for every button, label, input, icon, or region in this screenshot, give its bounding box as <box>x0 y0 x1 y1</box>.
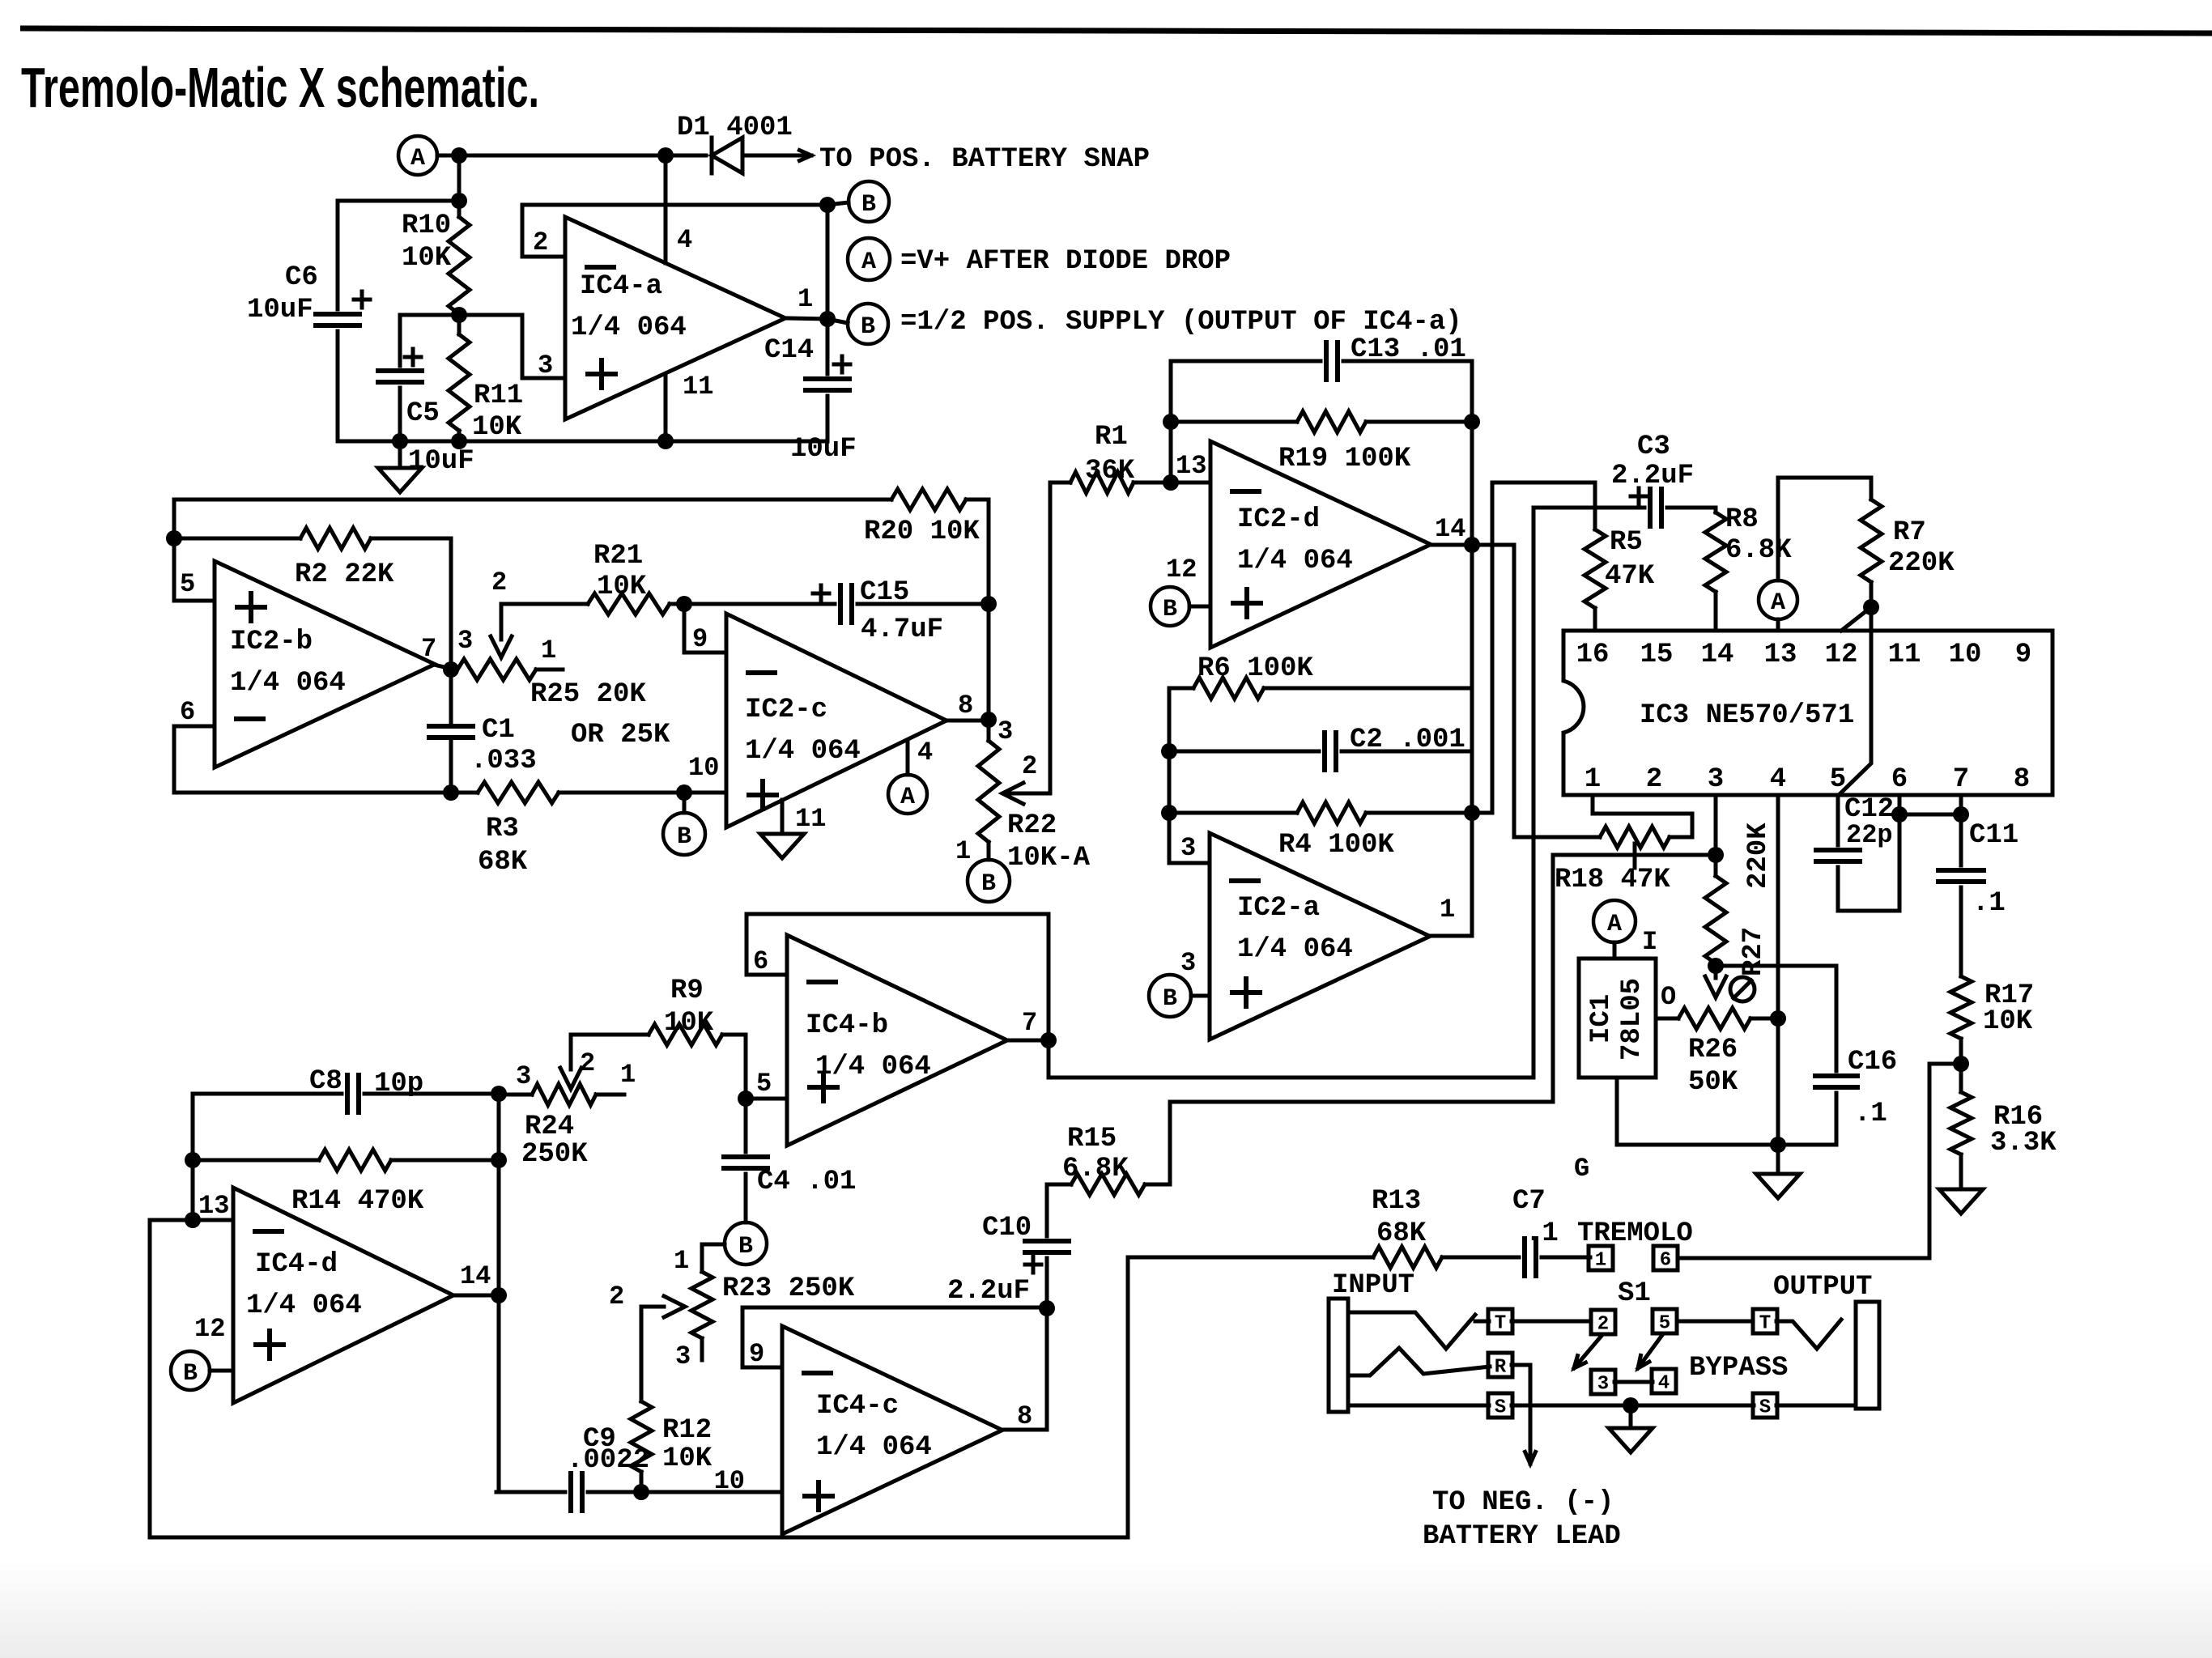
svg-text:10K: 10K <box>597 572 647 602</box>
svg-text:2.2uF: 2.2uF <box>1611 461 1694 491</box>
junction pin13 node <box>1163 474 1179 491</box>
wire C9 right rail <box>588 1490 782 1494</box>
wire C8 loop <box>193 1094 342 1157</box>
svg-text:1/4 064: 1/4 064 <box>571 312 687 343</box>
resistor R18 <box>1600 827 1670 848</box>
op-amp IC2-a <box>1210 833 1430 1039</box>
wire R15 to C10 <box>1045 1184 1049 1236</box>
svg-text:1: 1 <box>1595 1250 1606 1272</box>
svg-text:220K: 220K <box>1888 548 1955 579</box>
svg-text:OR 25K: OR 25K <box>571 720 670 750</box>
svg-text:4: 4 <box>677 225 692 255</box>
wire diagonal to pin12 <box>1841 607 1871 631</box>
node B (C4) <box>725 1222 767 1265</box>
svg-text:T: T <box>1759 1313 1771 1335</box>
wire C14 top <box>826 319 830 374</box>
ground stem IC1 <box>1776 1145 1780 1174</box>
plus sign C5 <box>405 349 421 365</box>
wire R23 wiper <box>641 1307 664 1401</box>
wire riser output to top <box>826 205 830 319</box>
svg-text:10p: 10p <box>374 1069 423 1099</box>
junction pin13 IC4-d <box>185 1212 201 1228</box>
input jack ring contact <box>1348 1348 1490 1375</box>
resistor R10 <box>449 217 470 314</box>
svg-text:C1: C1 <box>482 715 515 746</box>
node B (IC2-d pin12) <box>1151 587 1189 626</box>
capacitor C13 <box>1326 342 1338 380</box>
capacitor C6 <box>316 314 359 325</box>
svg-text:=1/2 POS. SUPPLY (OUTPUT OF IC: =1/2 POS. SUPPLY (OUTPUT OF IC4-a) <box>900 307 1462 338</box>
junction rail/C5 <box>392 433 408 449</box>
wire to pin13 IC4-d <box>191 1160 195 1220</box>
wire R25 wiper <box>500 604 504 640</box>
svg-text:1/4 064: 1/4 064 <box>745 736 861 767</box>
svg-text:IC1: IC1 <box>1586 994 1617 1044</box>
node B (R22 bottom) <box>968 860 1010 902</box>
junction R12/rail <box>633 1484 649 1500</box>
resistor R21 <box>588 593 670 614</box>
svg-text:250K: 250K <box>521 1139 588 1170</box>
svg-text:R12: R12 <box>662 1415 712 1446</box>
svg-text:10: 10 <box>714 1466 745 1496</box>
wire C15 right <box>857 602 989 606</box>
junction R14 right <box>491 1152 507 1168</box>
resistor R7 <box>1861 500 1882 582</box>
wire feedback top <box>522 205 827 257</box>
wire pin3 stub IC2-a <box>1169 861 1210 865</box>
svg-text:7: 7 <box>1953 764 1969 795</box>
svg-text:R23 250K: R23 250K <box>722 1273 855 1304</box>
junction R7/pin12/pin5 <box>1863 599 1879 615</box>
junction R4 right <box>1464 805 1480 821</box>
op-amp IC2-c <box>726 614 946 827</box>
wire IC4-c feedback <box>742 1307 1047 1367</box>
svg-text:3: 3 <box>1708 764 1724 795</box>
wiper stem R27 <box>1714 966 1718 978</box>
junction diode/pin4 <box>657 147 674 164</box>
svg-text:R25 20K: R25 20K <box>530 679 646 710</box>
wire sleeve to output jack <box>1776 1404 1856 1408</box>
svg-text:A: A <box>1607 911 1622 938</box>
wire R22 bottom lead <box>987 842 991 860</box>
wire R14 left lead <box>193 1158 319 1163</box>
svg-text:14: 14 <box>1701 640 1734 670</box>
svg-text:A: A <box>1771 589 1785 617</box>
junction C8/R24 <box>491 1086 507 1102</box>
junction R27 bottom <box>1708 958 1724 974</box>
svg-text:R4 100K: R4 100K <box>1278 830 1394 861</box>
wire C3 right <box>1667 508 1716 512</box>
svg-text:R10: R10 <box>402 210 451 241</box>
wiper arrow R23 <box>664 1296 685 1317</box>
node B (half supply) <box>849 181 889 222</box>
svg-text:C8: C8 <box>309 1066 342 1097</box>
resistor R13 <box>1373 1247 1442 1268</box>
svg-text:C15: C15 <box>860 577 909 608</box>
wire IC2-b output <box>434 665 451 669</box>
wire B node stub <box>827 202 849 205</box>
svg-text:B: B <box>861 313 875 341</box>
wire R23 bottom lead <box>700 1338 704 1360</box>
op-amp IC4-d <box>233 1188 453 1403</box>
svg-text:O: O <box>1661 982 1676 1012</box>
junction R19 left <box>1163 414 1179 430</box>
svg-text:1: 1 <box>674 1246 689 1276</box>
IC IC1 78L05 body <box>1579 959 1656 1078</box>
svg-text:47K: 47K <box>1605 561 1655 592</box>
svg-text:3: 3 <box>516 1061 531 1091</box>
wire T to 2 <box>1512 1320 1591 1324</box>
capacitor C4 <box>724 1157 768 1168</box>
svg-text:Tremolo-Matic X schematic.: Tremolo-Matic X schematic. <box>21 56 539 119</box>
svg-text:12: 12 <box>1166 555 1197 585</box>
symbol wiper dest R27 <box>1730 977 1755 1001</box>
svg-text:9: 9 <box>749 1339 764 1369</box>
wire IC4-d output <box>453 1294 499 1298</box>
wiper arrow R25 <box>491 636 512 657</box>
svg-text:6: 6 <box>1891 764 1908 795</box>
svg-text:1: 1 <box>541 636 556 665</box>
wire R6 left vertical <box>1168 688 1172 863</box>
junction gnd node <box>1770 1137 1786 1153</box>
svg-text:B: B <box>738 1233 753 1261</box>
wire pin5 stub <box>174 599 215 603</box>
svg-text:S: S <box>1759 1397 1771 1419</box>
capacitor C2 <box>1325 733 1336 770</box>
leader line R18 <box>1633 844 1637 868</box>
junction R4 left <box>1161 805 1177 821</box>
terminal T (output jack) <box>1753 1309 1777 1335</box>
svg-text:IC4-c: IC4-c <box>816 1391 899 1422</box>
junction A/R10 <box>451 147 467 164</box>
svg-text:1: 1 <box>1585 764 1601 795</box>
svg-text:2: 2 <box>533 227 548 257</box>
svg-text:R3: R3 <box>486 814 519 844</box>
wire output to B <box>827 319 848 323</box>
svg-text:2: 2 <box>1646 764 1662 795</box>
svg-text:6: 6 <box>753 946 768 976</box>
svg-text:1/4 064: 1/4 064 <box>1237 934 1353 965</box>
svg-text:14: 14 <box>1435 514 1465 544</box>
op-amp IC2-d <box>1210 441 1431 648</box>
svg-text:4: 4 <box>1770 764 1786 795</box>
junction pin3/wire <box>1708 847 1724 863</box>
resistor R5 <box>1585 529 1606 608</box>
wire C12 bottom route <box>1838 795 1899 911</box>
wire R17 bottom <box>1959 1039 1963 1092</box>
wire C6 bottom <box>336 331 340 441</box>
svg-text:50K: 50K <box>1688 1067 1738 1098</box>
svg-text:10K: 10K <box>662 1443 713 1474</box>
wire R21 right lead <box>670 602 684 606</box>
svg-text:A: A <box>900 784 915 811</box>
wiper arrow R22 <box>1002 783 1023 804</box>
node B (IC4-d pin12) <box>171 1351 210 1390</box>
svg-text:OUTPUT: OUTPUT <box>1773 1272 1872 1303</box>
wire R6 right lead <box>1264 687 1472 691</box>
resistor R9 <box>649 1024 722 1045</box>
wire R24 left lead <box>499 1093 532 1097</box>
wire R20 down to pin8 <box>987 604 991 720</box>
wire R9 right lead <box>722 1035 746 1095</box>
wire bottom loop <box>174 791 478 795</box>
svg-text:2: 2 <box>1597 1314 1609 1336</box>
svg-text:9: 9 <box>2015 640 2031 670</box>
svg-text:14: 14 <box>460 1261 491 1291</box>
wire R17R16 junction to pot <box>1678 1064 1961 1258</box>
wire IC2-c output <box>946 719 989 723</box>
terminal 2 (S1) <box>1591 1310 1615 1336</box>
wire R6 leads <box>1169 687 1193 691</box>
svg-text:D1 4001: D1 4001 <box>677 113 793 143</box>
switch arm S1 a <box>1574 1336 1602 1368</box>
terminal 6 (TREMOLO pot) <box>1653 1246 1678 1272</box>
svg-text:.0022: .0022 <box>567 1445 649 1476</box>
wire A to pin13 <box>1776 619 1780 631</box>
wire pin13 stub <box>1171 481 1210 485</box>
wire pin13 riser <box>1171 361 1321 483</box>
wire pin6 stub IC4-b <box>747 973 787 977</box>
arrow to neg battery <box>1525 1417 1536 1464</box>
svg-text:R24: R24 <box>525 1112 574 1142</box>
svg-text:6.8K: 6.8K <box>1725 535 1792 566</box>
node A (IC1 input) <box>1593 900 1636 942</box>
svg-text:10K: 10K <box>402 243 452 274</box>
wire x1818 vertical <box>1470 422 1474 936</box>
wire pin11 supply <box>664 374 668 441</box>
plus sign C15 <box>813 585 829 602</box>
svg-text:IC4-b: IC4-b <box>806 1010 888 1041</box>
wire pin6 stub <box>174 725 215 729</box>
plus sign C10 <box>1025 1256 1041 1273</box>
junction pin7 IC4-b <box>1040 1032 1057 1048</box>
svg-text:R18 47K: R18 47K <box>1555 865 1670 895</box>
potentiometer R22 <box>978 741 999 842</box>
wire R25 right lead <box>536 668 563 672</box>
wire R19 right lead <box>1366 420 1472 424</box>
wire A to pin13 top <box>1778 478 1871 580</box>
terminal 4 (S1) <box>1652 1369 1676 1395</box>
wire R11 bottom lead <box>457 431 462 441</box>
svg-text:5: 5 <box>1830 764 1846 795</box>
svg-text:.1: .1 <box>1525 1218 1559 1249</box>
resistor R15 <box>1071 1174 1145 1195</box>
junction R9/pin5/C4 <box>738 1090 754 1107</box>
svg-text:68K: 68K <box>1376 1218 1427 1249</box>
svg-text:11: 11 <box>795 804 826 834</box>
capacitor C3 <box>1650 489 1661 526</box>
wire C8 right <box>364 1092 499 1096</box>
terminal 1 (TREMOLO pot) <box>1589 1246 1613 1272</box>
svg-text:3: 3 <box>998 716 1013 746</box>
svg-text:B: B <box>861 191 876 219</box>
junction IC4-d output <box>491 1287 507 1303</box>
svg-text:1/4 064: 1/4 064 <box>246 1290 362 1321</box>
wire IC4-c output <box>1002 1428 1047 1432</box>
capacitor C16 <box>1815 1076 1857 1087</box>
resistor R16 <box>1950 1092 1972 1154</box>
resistor R26 <box>1678 1008 1750 1029</box>
svg-text:T: T <box>1495 1313 1506 1335</box>
wire pin10 stub <box>684 791 726 795</box>
wire R26 right lead <box>1750 1017 1778 1021</box>
wire sleeve to gnd <box>1512 1404 1754 1408</box>
svg-text:C5: C5 <box>406 398 440 429</box>
wire pin6 to pin7 <box>1899 813 1961 817</box>
svg-text:3: 3 <box>1597 1374 1609 1396</box>
resistor R12 <box>631 1401 652 1472</box>
wire pin4 IC3 ground net <box>1776 795 1780 1145</box>
svg-text:2: 2 <box>580 1048 595 1078</box>
junction C10/feedback <box>1039 1300 1055 1316</box>
wire R22 top lead <box>987 720 991 741</box>
svg-text:36K: 36K <box>1085 456 1135 487</box>
wire pin3net to R15 <box>1170 855 1553 1184</box>
svg-text:3: 3 <box>538 351 553 380</box>
wire R to neg lead <box>1512 1365 1530 1451</box>
svg-text:1/4 064: 1/4 064 <box>816 1432 932 1463</box>
op-amp IC2-b <box>215 561 435 767</box>
svg-text:C11: C11 <box>1969 820 2018 851</box>
svg-text:11: 11 <box>683 372 713 402</box>
svg-text:.033: .033 <box>470 746 537 776</box>
svg-text:10K: 10K <box>472 412 522 443</box>
op-amp IC4-b <box>787 935 1007 1146</box>
capacitor C11 <box>1938 870 1984 882</box>
wire pin7 down <box>1959 795 1963 865</box>
wire pin16 net <box>1472 483 1595 813</box>
svg-text:R14 470K: R14 470K <box>291 1186 424 1217</box>
wire R19 leads <box>1171 420 1297 424</box>
wire R16 to gnd <box>1959 1154 1963 1189</box>
wire LFO out loop <box>150 1220 1373 1537</box>
junction rail/R11 <box>451 433 467 449</box>
svg-text:1: 1 <box>955 836 971 866</box>
svg-text:R13: R13 <box>1372 1186 1421 1217</box>
wire C2 right <box>1342 750 1472 754</box>
resistor R6 <box>1193 678 1264 699</box>
wire B to R23 <box>702 1244 725 1272</box>
svg-text:R11: R11 <box>474 380 523 411</box>
svg-text:A: A <box>861 249 876 276</box>
svg-text:3.3K: 3.3K <box>1990 1128 2057 1158</box>
svg-text:INPUT: INPUT <box>1332 1270 1414 1301</box>
svg-text:10uF: 10uF <box>408 446 474 477</box>
svg-text:5: 5 <box>756 1069 772 1099</box>
top border rule <box>20 28 2212 33</box>
wire R18 right jog <box>1593 795 1692 837</box>
svg-text:12: 12 <box>194 1314 225 1344</box>
svg-text:5: 5 <box>1659 1313 1670 1335</box>
svg-text:3: 3 <box>1180 948 1196 978</box>
svg-text:R2 22K: R2 22K <box>295 559 394 590</box>
svg-text:TO NEG. (-): TO NEG. (-) <box>1432 1487 1614 1518</box>
junction R26/pin4 net <box>1770 1010 1786 1027</box>
svg-text:1: 1 <box>1440 895 1455 925</box>
svg-text:C4 .01: C4 .01 <box>757 1167 856 1197</box>
svg-text:1/4 064: 1/4 064 <box>230 668 346 699</box>
wire B stub IC2-a <box>1191 994 1210 998</box>
svg-text:7: 7 <box>1022 1008 1037 1038</box>
wire R20 right lead <box>966 500 989 604</box>
resistor R24 <box>532 1084 596 1105</box>
svg-text:R27: R27 <box>1738 927 1769 976</box>
plus sign C14 <box>834 356 850 372</box>
wire R7 top lead <box>1870 478 1874 500</box>
node A (IC3 pin13) <box>1759 580 1797 619</box>
wire B stub IC4-d <box>210 1369 233 1373</box>
svg-text:8: 8 <box>958 691 973 721</box>
wire pin4 stub IC2-c <box>906 742 910 775</box>
svg-text:B: B <box>981 870 996 898</box>
svg-text:10: 10 <box>1949 640 1982 670</box>
junction R21/C15/pin9 <box>676 596 692 612</box>
terminal T (input jack) <box>1488 1309 1512 1335</box>
svg-text:13: 13 <box>1176 451 1206 481</box>
node B legend <box>848 304 888 344</box>
svg-text:8: 8 <box>1017 1401 1032 1431</box>
wire through IC3 to pin5 <box>1839 607 1871 795</box>
diode D1 <box>712 138 742 173</box>
wire R21 left lead <box>501 602 588 606</box>
svg-text:C3: C3 <box>1637 432 1670 462</box>
svg-text:B: B <box>1163 596 1177 623</box>
svg-text:=V+ AFTER DIODE DROP: =V+ AFTER DIODE DROP <box>900 246 1231 277</box>
wire pin4 supply <box>664 155 668 263</box>
ground (sleeve) <box>1609 1428 1653 1452</box>
capacitor C12 <box>1816 850 1860 861</box>
svg-text:2: 2 <box>609 1282 624 1312</box>
wire C16 bottom <box>1835 1093 1839 1145</box>
svg-text:C14: C14 <box>764 335 814 366</box>
input jack tip contact <box>1348 1312 1475 1349</box>
svg-text:S: S <box>1495 1397 1506 1419</box>
ground stem IC2-c pin11 <box>781 800 785 834</box>
svg-text:G: G <box>1574 1154 1589 1184</box>
node B (IC2-a pin3) <box>1149 975 1191 1017</box>
resistor R17 <box>1950 976 1972 1039</box>
wire output pin1 <box>788 318 827 319</box>
svg-text:10K: 10K <box>1983 1006 2033 1037</box>
svg-text:8: 8 <box>2014 764 2030 795</box>
wire C3 left net <box>1534 508 1644 1078</box>
wire tip to T <box>1475 1320 1489 1324</box>
wiper arrow R27 <box>1705 976 1726 997</box>
resistor R20 <box>891 489 966 510</box>
svg-text:IC4-a: IC4-a <box>580 271 662 302</box>
terminal S (input jack) <box>1488 1393 1512 1419</box>
wire R11 leads <box>457 315 462 334</box>
wire top loop <box>174 500 891 601</box>
svg-text:3: 3 <box>675 1341 691 1371</box>
capacitor C1 <box>429 726 473 738</box>
node A (supply input) <box>398 136 437 175</box>
junction pin7 node <box>443 661 459 678</box>
wire R2 right lead <box>371 538 451 726</box>
svg-text:10K-A: 10K-A <box>1007 843 1091 874</box>
svg-text:IC4-d: IC4-d <box>255 1249 338 1280</box>
svg-text:13: 13 <box>198 1191 229 1221</box>
wire R24 wiper to R9 <box>571 1035 649 1069</box>
wire pin5 to C12 <box>1836 795 1840 845</box>
svg-text:11: 11 <box>1888 640 1921 670</box>
wire IC4-b out to C3 <box>1049 1040 1534 1078</box>
resistor R4 <box>1297 802 1366 823</box>
ground (IC2-c pin11) <box>760 834 804 858</box>
terminal 3 (S1) <box>1591 1370 1615 1396</box>
wire to battery snap <box>742 151 811 161</box>
potentiometer R23 <box>691 1272 713 1338</box>
